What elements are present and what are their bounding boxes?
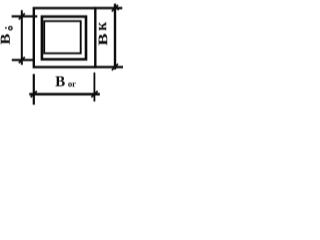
label Vo: subscript o ring (9, 27, 12, 30)
middle square (thick wall) (42, 17, 86, 60)
right dimension line (114, 4, 116, 70)
right dimension tick top extra stroke (116, 7, 119, 10)
left dimension tick bottom (19, 57, 25, 63)
label Vk: letter V rotated (99, 34, 108, 45)
right dimension extension line bottom (outer bottom edge extended) (94, 66, 123, 68)
right dimension extension line top (outer top edge extended) (94, 7, 122, 9)
left dimension line (21, 10, 23, 65)
right dimension tick top (112, 5, 118, 11)
bottom dimension extension line right (93, 73, 95, 102)
label Vog: subscript g (72, 83, 75, 87)
bottom dimension line (29, 93, 100, 96)
label Vog: subscript og (68, 83, 72, 87)
bottom dimension tick left (31, 91, 37, 97)
label Vk: subscript k rotated (99, 22, 106, 30)
inner square (44, 21, 80, 53)
label Vo: letter V rotated (1, 34, 10, 44)
right dimension tick bottom (112, 64, 118, 70)
left dimension extension line top (12, 15, 38, 17)
bottom dimension tick right (91, 91, 97, 97)
label Vog: letter V (55, 76, 64, 86)
left dimension tick top (19, 13, 25, 19)
bottom dimension extension line left (33, 74, 35, 105)
left dimension extension line bottom (12, 59, 35, 61)
outer square (34, 8, 96, 67)
label Vo: stray ink dot (5, 27, 7, 29)
